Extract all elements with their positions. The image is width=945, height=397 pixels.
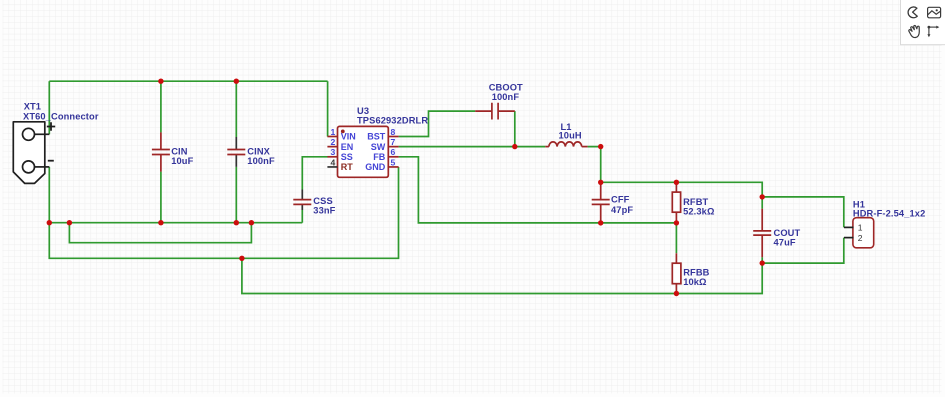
XT1 minus mark (48, 160, 54, 162)
XT1 plus mark (47, 122, 55, 130)
wire vout to H1 pin1 (762, 197, 844, 228)
svg-text:10kΩ: 10kΩ (683, 277, 707, 287)
svg-text:47uF: 47uF (774, 237, 796, 247)
svg-text:RFBT: RFBT (683, 197, 708, 207)
svg-text:3: 3 (331, 147, 336, 157)
svg-text:CSS: CSS (313, 196, 332, 206)
node gnd-rfbb (674, 291, 679, 296)
node vout-cout (760, 194, 765, 199)
U3 pin 2 EN (327, 137, 353, 152)
svg-text:CFF: CFF (611, 194, 630, 204)
U3 pin 5 GND (365, 157, 398, 172)
node gnd-a1 (67, 220, 72, 225)
svg-text:10uF: 10uF (171, 156, 193, 166)
svg-text:U3: U3 (357, 106, 369, 116)
svg-text:8: 8 (391, 127, 396, 137)
capacitor CBOOT (475, 103, 515, 120)
node vout-rfbt (674, 180, 679, 185)
svg-text:6: 6 (391, 147, 396, 157)
node vin-cinx (234, 79, 239, 84)
svg-text:100nF: 100nF (492, 92, 520, 102)
op-amp U3 body (338, 126, 389, 177)
node vin-cin (158, 79, 163, 84)
svg-text:10uH: 10uH (559, 131, 582, 141)
svg-text:1: 1 (331, 127, 336, 137)
node gnd-c (239, 256, 244, 261)
capacitor CINX (227, 137, 245, 167)
node gnd-a2 (249, 220, 254, 225)
node gnd-cinx (234, 220, 239, 225)
wire SW pin to L1 (399, 146, 546, 148)
wire VIN top bus (49, 80, 327, 82)
svg-text:XT60_Connector: XT60_Connector (23, 111, 99, 121)
node fb-rfbt (674, 220, 679, 225)
svg-text:52.3kΩ: 52.3kΩ (683, 207, 715, 217)
connector H1 body (853, 218, 874, 248)
wire COUT top stub join (761, 197, 763, 209)
svg-text:2: 2 (331, 137, 336, 147)
wire VIN: XT1 plus pin up to top bus (48, 81, 50, 134)
wire RFBT bottom to RFBB top (675, 223, 677, 253)
node sw-l1 (598, 144, 603, 149)
wire vout top bus (601, 182, 763, 197)
wire CSS bottom to gnd bus (301, 210, 303, 223)
connector H1 pin 1 (844, 223, 863, 233)
wire CINX bottom to gnd bus (235, 167, 237, 223)
wire gnd bus C to U3 GND pin (49, 167, 398, 258)
wire COUT bottom stub join (761, 257, 763, 263)
U3 pin 7 SW (371, 137, 399, 152)
svg-text:4: 4 (331, 157, 336, 167)
svg-text:5: 5 (391, 157, 396, 167)
node gnd-xt1 (47, 220, 52, 225)
svg-text:2: 2 (858, 233, 863, 243)
connector XT1 outline (13, 122, 45, 184)
capacitor COUT (753, 209, 771, 257)
node fb-cff (598, 220, 603, 225)
toolbar panel (901, 0, 945, 45)
connector XT1 pad circles (23, 128, 35, 173)
icon corner measure (927, 26, 939, 38)
U3 pin 8 BST (367, 127, 398, 142)
svg-text:RT: RT (341, 162, 353, 172)
svg-text:TPS62932DRLR: TPS62932DRLR (357, 115, 428, 125)
wire CIN bottom to gnd bus (160, 172, 162, 223)
svg-text:1: 1 (858, 223, 863, 233)
svg-text:33nF: 33nF (313, 205, 335, 215)
wire CINX top branch (235, 81, 237, 137)
wire FB pin down to fb bus (399, 157, 677, 223)
svg-text:47pF: 47pF (611, 205, 633, 215)
svg-text:HDR-F-2.54_1x2: HDR-F-2.54_1x2 (853, 209, 925, 219)
connector H1 pin 2 (844, 233, 863, 243)
svg-text:RFBB: RFBB (683, 267, 709, 277)
svg-text:XT1: XT1 (24, 102, 41, 112)
wire CIN top branch (160, 81, 162, 132)
U3 pin 6 FB (373, 147, 398, 162)
resistor RFBT (672, 182, 680, 223)
svg-text:VIN: VIN (341, 132, 356, 142)
icon hand (909, 25, 920, 37)
wire COUT bottom to H1 pin2 (762, 238, 844, 264)
svg-text:CINX: CINX (247, 147, 270, 157)
icon crescent (908, 7, 917, 18)
node vout-cff (598, 180, 603, 185)
capacitor CIN (152, 132, 170, 171)
U3 pin 3 SS (327, 147, 352, 162)
svg-text:FB: FB (373, 152, 385, 162)
svg-text:EN: EN (341, 142, 354, 152)
resistor RFBB (672, 253, 681, 293)
wire gnd detour U shape (69, 223, 251, 243)
svg-text:7: 7 (391, 137, 396, 147)
U3 pin 1 VIN (327, 127, 355, 142)
wire gnd bus A (49, 222, 302, 224)
U3 pin 4 RT (327, 157, 353, 172)
wire CBOOT right down to SW (514, 111, 516, 147)
connector XT1 pin 2 (35, 166, 50, 168)
wire gnd bus D (242, 258, 762, 293)
wire VIN bus down to U3 pin1 (327, 81, 329, 136)
svg-text:CIN: CIN (171, 147, 188, 157)
wire L1 right to node (588, 147, 601, 183)
wire SS pin to CSS (302, 157, 327, 190)
icon image (928, 7, 941, 17)
svg-text:GND: GND (365, 162, 386, 172)
capacitor CSS (293, 190, 311, 211)
svg-text:100nF: 100nF (247, 156, 275, 166)
node gnd-cin (158, 220, 163, 225)
node sw-cboot (512, 144, 517, 149)
wire XT1 minus pin down to gnd bus (48, 167, 50, 223)
inductor L1 (545, 142, 587, 147)
svg-text:BST: BST (367, 132, 386, 142)
node gnd-cout (760, 260, 765, 265)
capacitor CFF (592, 182, 610, 223)
connector XT1 pin 1 (35, 133, 50, 135)
svg-text:SW: SW (371, 142, 386, 152)
wire BST pin to CBOOT left (399, 111, 476, 136)
svg-text:SS: SS (341, 152, 353, 162)
